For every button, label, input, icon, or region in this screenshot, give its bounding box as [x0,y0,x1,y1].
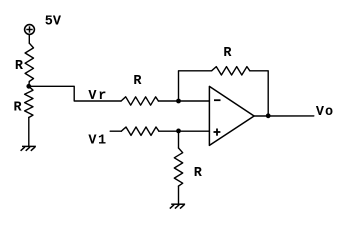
svg-text:R: R [223,46,232,61]
svg-text:Vo: Vo [316,105,333,120]
svg-text:R: R [133,74,142,89]
svg-text:Vr: Vr [88,89,106,104]
svg-text:R: R [14,100,23,115]
svg-text:5V: 5V [45,15,62,30]
svg-text:R: R [194,166,203,181]
svg-text:R: R [15,59,24,74]
svg-text:V1: V1 [88,134,106,149]
